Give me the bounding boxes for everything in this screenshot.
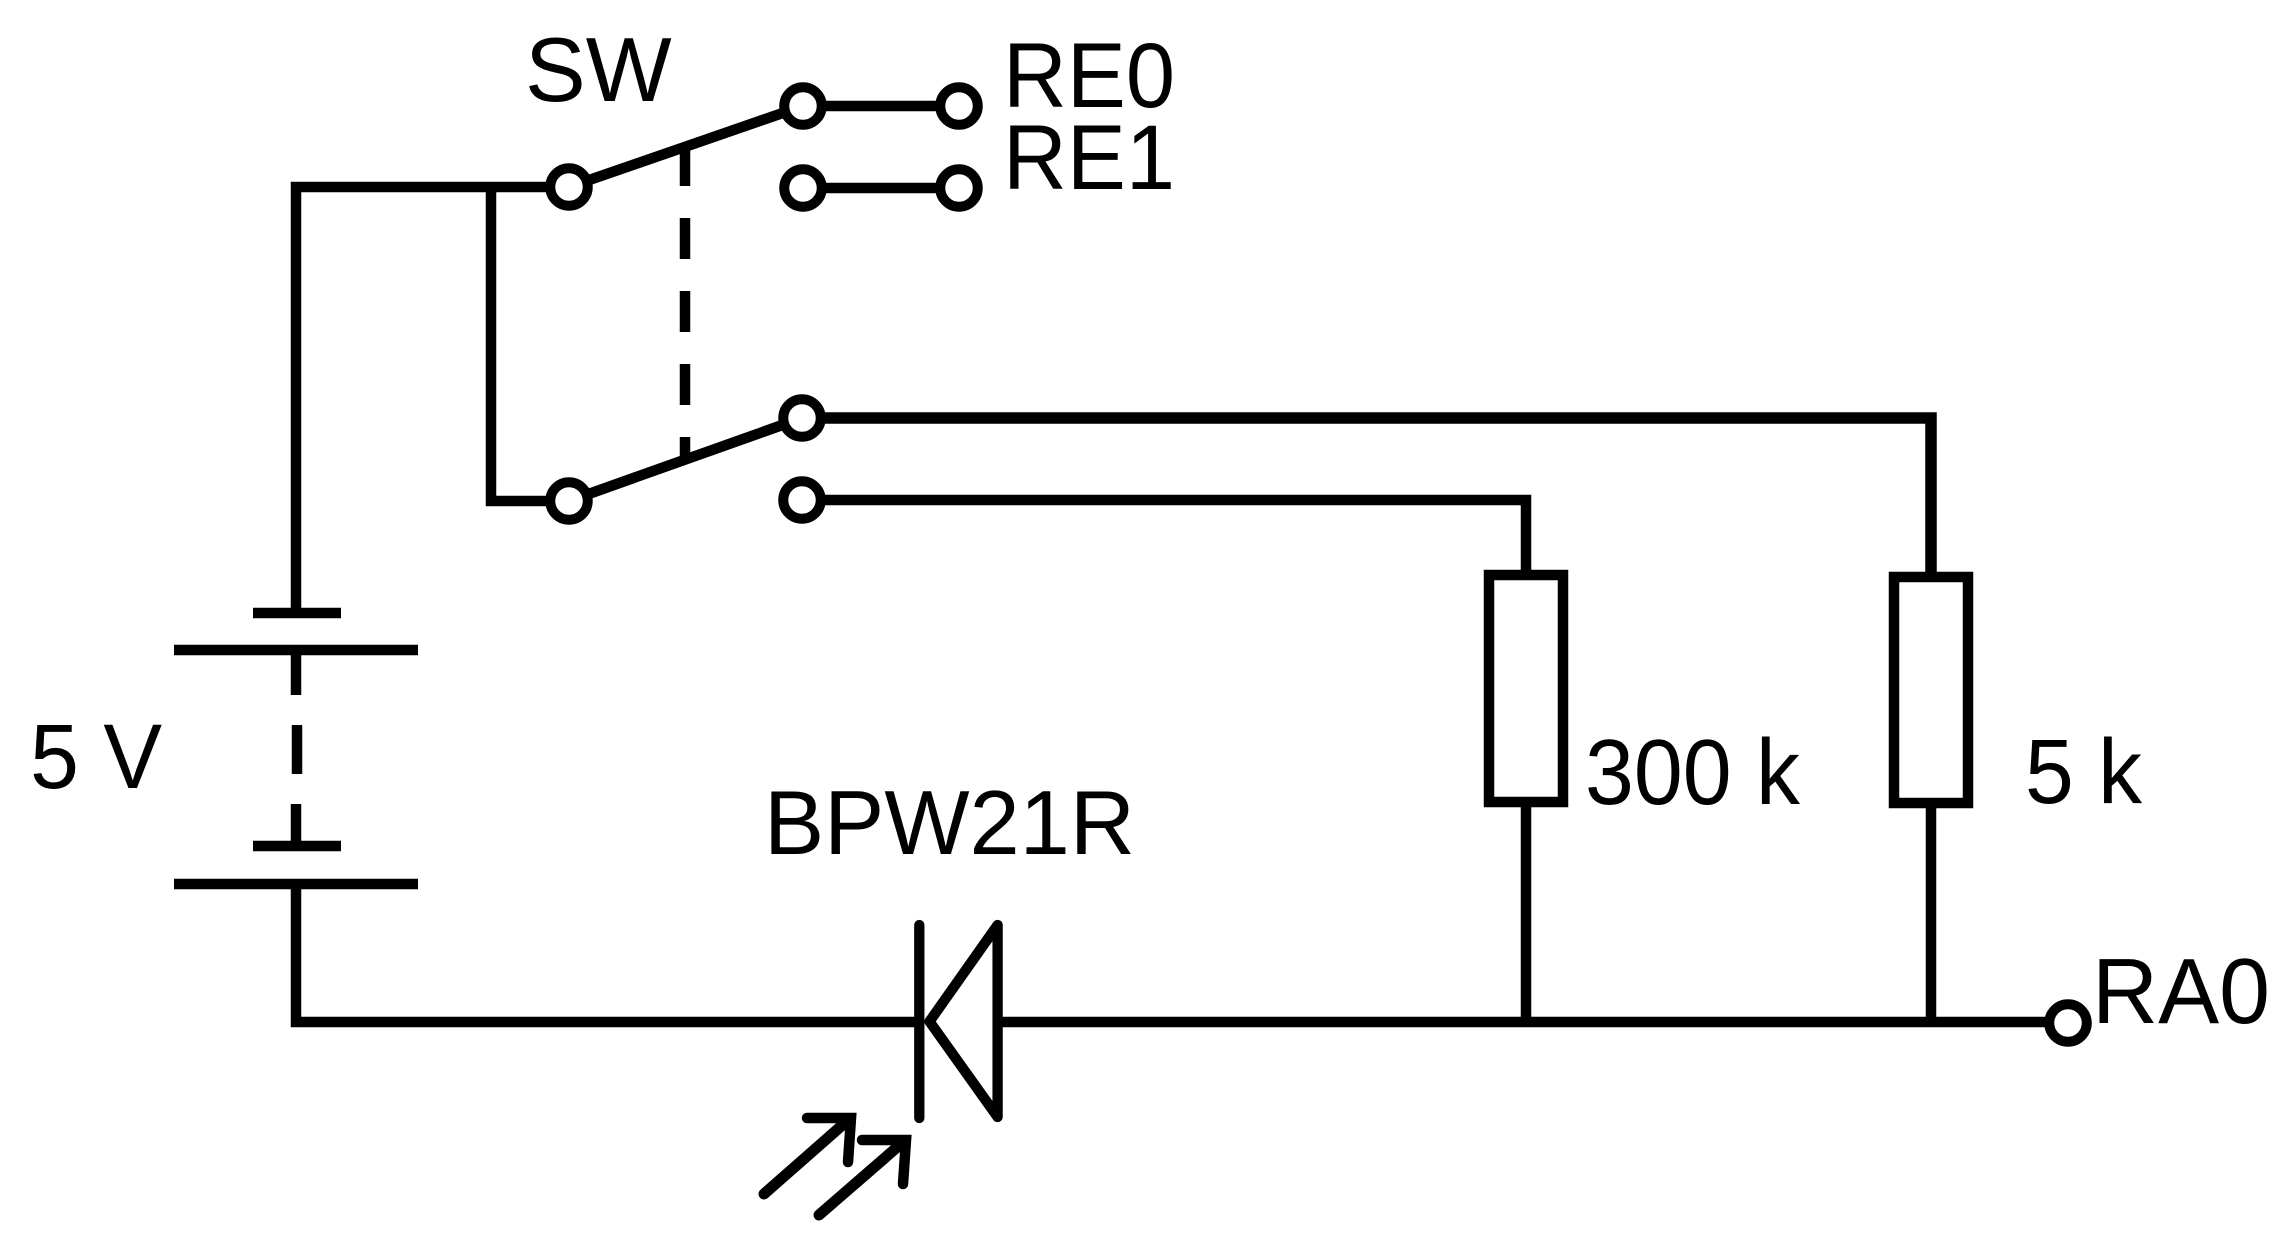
photodiode cathode bar xyxy=(914,925,924,1118)
node RE0 pin xyxy=(940,87,978,125)
photodiode BPW21R triangle (anode) xyxy=(930,925,998,1117)
battery B1 cell 2 long plate xyxy=(174,879,418,890)
wire: pole 2 lower throw to 300 k resistor xyxy=(802,500,1526,575)
node RA0 pin xyxy=(2049,1004,2087,1042)
switch SW pole 2 lever xyxy=(569,418,802,501)
switch pole 1 throw RE0 terminal xyxy=(784,87,822,125)
svg-text:RE1: RE1 xyxy=(1003,107,1175,209)
wire: pole 2 upper throw to 5 k resistor xyxy=(802,418,1931,577)
wire: 300 k bottom lead xyxy=(1521,802,1532,1022)
svg-text:5 V: 5 V xyxy=(30,706,162,808)
wire: RE0 contact link xyxy=(803,101,959,112)
battery B1 cell 2 short plate xyxy=(253,841,341,852)
switch pole 2 common terminal xyxy=(550,482,588,520)
svg-text:300 k: 300 k xyxy=(1585,720,1800,824)
resistor 300 k xyxy=(1489,575,1563,802)
wire: battery top lead and main top wire to switch common xyxy=(296,187,569,609)
wire: battery bottom lead and bottom rail to photodiode xyxy=(296,884,919,1022)
battery B1 dashed middle link xyxy=(291,650,302,695)
wire: photodiode anode to RA0 xyxy=(997,1017,2068,1028)
node RE1 pin xyxy=(940,169,978,207)
photodiode light arrow 2 xyxy=(819,1143,902,1215)
switch pole 2 lower throw terminal xyxy=(783,481,821,519)
switch pole 1 throw RE1 terminal xyxy=(784,169,822,207)
svg-text:SW: SW xyxy=(525,20,672,121)
switch SW mechanical dashed link xyxy=(680,145,691,458)
battery B1 cell 1 long plate xyxy=(174,645,418,656)
wire: RE1 contact link xyxy=(803,183,959,194)
svg-text:BPW21R: BPW21R xyxy=(764,773,1135,874)
battery B1 cell 1 short plate xyxy=(253,608,341,619)
wire: branch down to pole 2 common xyxy=(491,187,569,501)
resistor 5 k xyxy=(1894,577,1968,803)
photodiode light arrow 1 xyxy=(764,1121,847,1194)
wire: 5 k bottom lead xyxy=(1926,803,1937,1022)
svg-text:RA0: RA0 xyxy=(2092,939,2270,1043)
switch SW pole 1 lever xyxy=(569,106,803,187)
switch pole 2 upper throw terminal xyxy=(783,399,821,437)
switch pole 1 common terminal xyxy=(550,168,588,206)
svg-text:5 k: 5 k xyxy=(2025,721,2143,823)
